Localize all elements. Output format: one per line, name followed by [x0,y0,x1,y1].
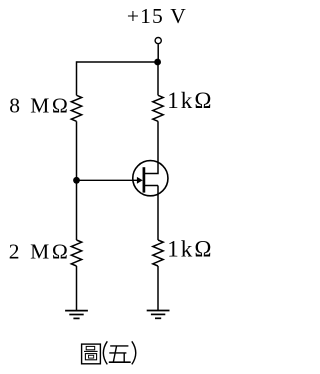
wire right to ground [157,266,159,311]
glyph 圖 top small box [86,346,95,349]
svg-text:1kΩ: 1kΩ [167,88,211,113]
transistor source stub [144,185,158,187]
right parenthesis [132,341,136,364]
ground left [65,311,88,319]
glyph 五 left slant stroke [113,346,116,361]
glyph 圖 middle horizontal stroke [84,350,98,352]
transistor channel bar [143,167,146,192]
wire drain [144,121,158,173]
wire left mid [76,121,78,180]
glyph 五 right vertical stroke [123,353,125,362]
wire gate [77,179,138,181]
svg-text:+15 V: +15 V [127,4,186,28]
wire source down [157,186,159,241]
transistor gate arrowhead [137,177,143,184]
wire top horizontal rail [77,61,158,63]
supply terminal circle [155,38,161,44]
resistor 1kΩ lower [153,240,163,266]
wire left to ground [76,266,78,311]
resistor 2 MΩ [71,240,81,266]
glyph 圖 mid box [85,354,96,360]
wire left rail upper [76,61,78,95]
glyph 圖 outer box [82,344,101,364]
resistor 8 MΩ [71,95,81,121]
svg-text:2 MΩ: 2 MΩ [9,240,68,264]
wire terminal to top node [157,44,159,59]
wire right rail upper [157,61,159,95]
glyph 圖 inner small box [89,355,94,358]
wire left lower [76,180,78,240]
node top junction dot [154,59,161,66]
glyph 五 middle bar [109,352,126,354]
left parenthesis [103,341,107,364]
ground right [147,311,170,319]
transistor Q1 circle [133,161,168,196]
resistor 1kΩ upper [153,95,163,121]
glyph 五 bottom bar [109,361,131,363]
svg-text:1kΩ: 1kΩ [167,236,211,261]
caption 圖(五) [82,341,136,364]
svg-text:8 MΩ: 8 MΩ [9,93,68,117]
glyph 五 top bar [110,345,128,347]
node gate junction dot [73,177,80,184]
